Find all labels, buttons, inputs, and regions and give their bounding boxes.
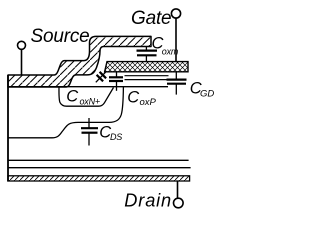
drain metal (hatched band) <box>8 176 190 181</box>
silicon surface line <box>8 86 168 88</box>
gate polysilicon (cross-hatched) <box>105 62 188 72</box>
source metal (hatched) <box>8 36 151 87</box>
svg-text:Source: Source <box>31 26 90 47</box>
drain lead <box>177 181 179 198</box>
svg-text:Drain: Drain <box>124 191 172 211</box>
capacitor C_oxm <box>137 46 158 61</box>
oxide line 1 <box>125 75 169 77</box>
source terminal <box>18 41 26 49</box>
capacitor C_DS <box>81 118 98 146</box>
svg-text:oxm: oxm <box>162 47 179 57</box>
capacitor C_oxP <box>109 72 123 91</box>
gate lead <box>175 18 177 61</box>
svg-text:GD: GD <box>200 89 214 100</box>
N+ source region box <box>59 87 114 106</box>
svg-text:oxP: oxP <box>140 97 157 108</box>
capacitor C_GD <box>167 72 187 95</box>
left edge <box>7 75 9 182</box>
capacitor C_oxN+ (tilted) <box>96 72 106 83</box>
svg-text:DS: DS <box>110 132 122 142</box>
svg-text:C: C <box>66 88 78 106</box>
source lead <box>21 49 23 75</box>
svg-text:C: C <box>127 88 139 106</box>
svg-text:oxN+: oxN+ <box>80 96 100 106</box>
drain terminal <box>174 198 184 208</box>
gate terminal <box>171 9 180 18</box>
epi/substrate line 2 <box>8 167 191 169</box>
oxide line 2 <box>125 79 167 81</box>
P-body boundary <box>8 87 123 138</box>
svg-text:Gate: Gate <box>131 8 171 29</box>
epi/substrate line 1 <box>8 159 189 161</box>
